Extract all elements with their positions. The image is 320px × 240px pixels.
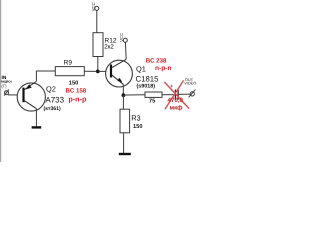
svg-text:VCC: VCC bbox=[119, 33, 124, 42]
ground (below R3) bbox=[119, 153, 131, 155]
wire capacitor to OUT bbox=[179, 93, 191, 95]
svg-text:p-n-p: p-n-p bbox=[68, 95, 87, 104]
svg-text:A733: A733 bbox=[45, 96, 64, 105]
svg-text:(s9018): (s9018) bbox=[137, 84, 156, 90]
Q2 collector wire down bbox=[35, 109, 37, 127]
wire IN to Q2 base bbox=[8, 94, 23, 96]
svg-text:VIDEO: VIDEO bbox=[184, 80, 196, 85]
svg-text:R9: R9 bbox=[64, 60, 73, 67]
svg-text:BC 158: BC 158 bbox=[66, 88, 87, 95]
resistor 75 bbox=[145, 92, 162, 105]
ground (below Q2) bbox=[32, 126, 42, 128]
red cross over capacitor bbox=[164, 80, 189, 109]
svg-text:мкф: мкф bbox=[170, 104, 184, 111]
svg-text:150: 150 bbox=[133, 124, 143, 130]
svg-text:(Г): (Г) bbox=[1, 83, 7, 88]
transistor Q1 (NPN) bbox=[106, 59, 133, 87]
junction node (R9/R12/Q1 base) bbox=[96, 70, 100, 74]
svg-text:Q2: Q2 bbox=[46, 84, 56, 93]
svg-text:75: 75 bbox=[149, 99, 155, 105]
junction node (Q1 emitter / R3 / output) bbox=[122, 93, 126, 97]
svg-text:R3: R3 bbox=[131, 114, 140, 123]
VCC terminal (top) bbox=[91, 2, 99, 32]
wire 75 to capacitor bbox=[162, 94, 175, 96]
svg-text:2к2: 2к2 bbox=[104, 44, 114, 51]
VCC terminal (right, above Q1) bbox=[119, 33, 127, 59]
svg-text:Q1: Q1 bbox=[136, 64, 146, 73]
Q1 emitter wire bbox=[122, 84, 124, 95]
svg-text:BC 238: BC 238 bbox=[146, 57, 167, 64]
resistor R9 bbox=[36, 60, 98, 87]
capacitor (electrolytic) bbox=[170, 84, 178, 100]
svg-text:470,0: 470,0 bbox=[168, 97, 184, 104]
left page border line bbox=[0, 0, 2, 162]
svg-text:VCC: VCC bbox=[91, 2, 96, 11]
wire R3 to ground bbox=[123, 133, 125, 153]
output wire from emitter junction bbox=[123, 94, 145, 96]
svg-text:150: 150 bbox=[69, 81, 79, 87]
resistor R12 bbox=[93, 33, 117, 57]
Q2 emitter wire up to R9 bbox=[36, 71, 55, 81]
OUT terminal bbox=[184, 77, 196, 97]
IN terminal bbox=[1, 75, 12, 95]
transistor Q2 (PNP) bbox=[17, 81, 45, 111]
resistor R3 bbox=[120, 95, 143, 133]
svg-text:(кт361): (кт361) bbox=[44, 106, 62, 112]
wire junction to Q1 base bbox=[98, 70, 106, 72]
svg-text:C1815: C1815 bbox=[136, 74, 160, 83]
svg-text:n-p-n: n-p-n bbox=[155, 65, 171, 72]
wire R12 bottom to junction bbox=[97, 57, 99, 72]
